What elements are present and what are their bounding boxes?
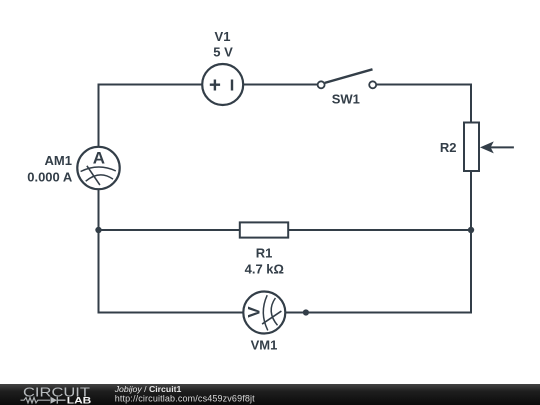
wire left upper vertical (top-left corner down to AM1) xyxy=(98,84,100,147)
svg-text:R2: R2 xyxy=(440,140,457,155)
svg-text:Jobijoy / Circuit1: Jobijoy / Circuit1 xyxy=(114,384,182,394)
wire right upper vertical (top-right corner down to R2) xyxy=(470,84,472,123)
svg-text:V1: V1 xyxy=(215,29,231,44)
junction dot right node xyxy=(468,227,474,233)
svg-text:LAB: LAB xyxy=(67,395,92,405)
wire right bottom vertical (node to bottom-right corner) xyxy=(470,230,472,314)
wire bottom left (bottom-left corner to VM1) xyxy=(98,312,244,314)
wire left lower vertical (AM1 to node at middle rail) xyxy=(98,189,100,230)
junction dot bottom node xyxy=(303,309,309,315)
CircuitLab logo resistor zigzag xyxy=(21,398,51,403)
wire middle rail right (R1 to right node) xyxy=(288,229,471,231)
svg-text:V: V xyxy=(245,306,264,318)
voltage source V1 xyxy=(202,64,243,105)
wire top-left horizontal (corner to V1 left terminal) xyxy=(99,84,203,86)
svg-text:SW1: SW1 xyxy=(332,91,360,106)
wire right middle vertical (R2 bottom to node at middle rail) xyxy=(470,171,472,230)
svg-text:AM1: AM1 xyxy=(45,153,72,168)
svg-text:A: A xyxy=(93,148,105,167)
wire bottom middle (VM1 to junction dot) xyxy=(285,312,306,314)
ammeter AM1 xyxy=(77,147,119,189)
svg-text:0.000 A: 0.000 A xyxy=(27,169,73,184)
svg-text:4.7 kΩ: 4.7 kΩ xyxy=(245,262,284,277)
wire bottom right (junction dot to bottom-right corner) xyxy=(306,312,472,314)
junction dot left node xyxy=(95,227,101,233)
potentiometer R2 xyxy=(464,123,514,172)
switch SW1 xyxy=(318,69,377,88)
CircuitLab logo diode symbol xyxy=(51,397,58,404)
svg-text:5 V: 5 V xyxy=(213,44,233,59)
wire left bottom vertical (node to bottom-left corner) xyxy=(98,230,100,314)
wire top-middle (V1 right terminal to SW1 left pole) xyxy=(243,84,317,86)
resistor R1 xyxy=(240,222,288,237)
wire middle rail left (left node to R1) xyxy=(99,229,240,231)
wire top-right (SW1 right pole to top-right corner) xyxy=(376,84,471,86)
svg-text:VM1: VM1 xyxy=(251,338,278,353)
svg-text:R1: R1 xyxy=(256,246,273,261)
voltmeter VM1 xyxy=(243,292,285,334)
svg-text:http://circuitlab.com/cs459zv6: http://circuitlab.com/cs459zv69f8jt xyxy=(115,394,255,404)
footer bar background xyxy=(0,384,540,405)
